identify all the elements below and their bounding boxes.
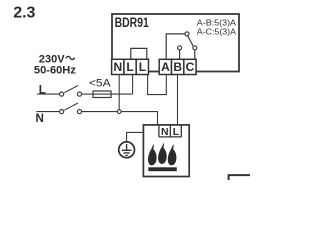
earth wire [127, 132, 144, 142]
terminal group N L L [112, 59, 149, 74]
burner bar [148, 167, 177, 171]
jumper L2 to A [148, 75, 167, 95]
switch L terminal circle 2 [77, 92, 81, 96]
flame 3 [168, 144, 177, 165]
stub below contact B [179, 50, 181, 60]
wire through fuse [93, 93, 133, 95]
earth symbol bars [122, 149, 132, 151]
boiler terminal block [159, 125, 181, 137]
switch N terminal circle 1 [60, 110, 64, 114]
relay contact C [193, 46, 197, 50]
switch N terminal circle 2 [77, 110, 81, 114]
svg-text:N: N [161, 127, 169, 138]
corner of adjacent figure box [229, 175, 250, 180]
svg-text:A-C:5(3)A: A-C:5(3)A [197, 27, 237, 36]
svg-text:N: N [113, 60, 122, 74]
BDR91 receiver box outline [112, 14, 239, 72]
flame 1 [148, 144, 157, 165]
earth symbol stem [126, 144, 128, 150]
flame 2 [158, 143, 167, 164]
terminal letters N L L [113, 60, 146, 74]
wire node to boiler N [121, 112, 157, 125]
boiler box [143, 125, 189, 177]
svg-text:A: A [161, 60, 170, 74]
switch N blade [64, 103, 78, 110]
wire fuse up to terminal L1 [132, 75, 134, 95]
sine symbol [66, 56, 75, 59]
svg-text:L: L [126, 60, 133, 74]
switch L blade [64, 86, 78, 93]
L-L internal link [131, 48, 147, 59]
wire N from label to switch [36, 111, 59, 113]
svg-text:230V: 230V [39, 53, 65, 65]
wire L from label to switch [37, 93, 60, 95]
svg-text:A-B:5(3)A: A-B:5(3)A [197, 18, 237, 27]
svg-text:<5A: <5A [89, 78, 112, 90]
svg-text:2.3: 2.3 [13, 5, 35, 22]
wire N terminal down to node [118, 75, 120, 110]
terminal letters A B C [161, 60, 195, 74]
stub below contact C [194, 50, 196, 60]
svg-text:C: C [186, 60, 195, 74]
svg-text:B: B [173, 60, 182, 74]
relay switch arm [188, 36, 194, 47]
wire N switch to node [82, 111, 118, 113]
wire B to boiler L [177, 75, 179, 125]
svg-text:N: N [36, 112, 44, 125]
earth circle [119, 142, 135, 158]
node junction circle [117, 110, 121, 114]
wire L switch to fuse [82, 93, 93, 95]
svg-text:L: L [139, 60, 146, 74]
boiler terminal letters N L [161, 127, 180, 138]
relay pivot contact [185, 32, 189, 36]
relay contact B [178, 46, 182, 50]
svg-text:L: L [173, 127, 180, 138]
fuse body [93, 91, 111, 98]
terminal group A B C [159, 59, 196, 74]
svg-text:50-60Hz: 50-60Hz [34, 65, 77, 77]
relay wire from terminal A [166, 34, 185, 60]
svg-text:BDR91: BDR91 [115, 15, 150, 30]
switch L terminal circle 1 [60, 92, 64, 96]
